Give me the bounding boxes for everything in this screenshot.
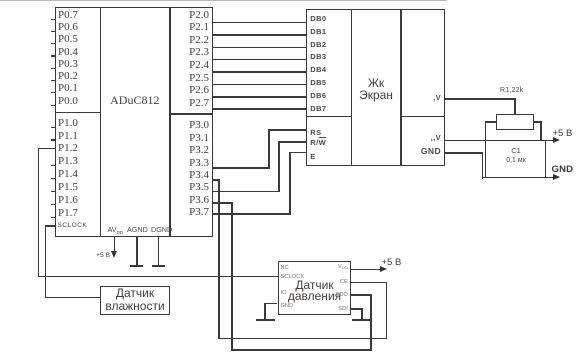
DGND pin label (151, 225, 172, 234)
wire P2.5-DB5 (213, 84, 306, 86)
wire P2.2-DB2 (213, 47, 306, 49)
wire P1.2 to sensor SCLOCK (38, 276, 279, 278)
wire P3.4-CE vertical (218, 179, 220, 339)
ground bar sensor GND (256, 319, 275, 321)
wire P2.3-DB3 (213, 59, 306, 61)
wire SDI vertical (361, 308, 363, 319)
IO pin label (281, 290, 287, 296)
wire P3.6-SDO vertical (231, 202, 233, 351)
DB3 pin label (310, 52, 326, 61)
LCD right column divider (400, 116, 445, 118)
wire sensor GND vertical (264, 303, 266, 320)
wire P2.7-DB7 (213, 108, 306, 110)
pin stub P0.2 (51, 80, 55, 81)
R/W pin label (310, 138, 326, 147)
wire DGND vertical (158, 237, 160, 266)
wire +5V rail (445, 140, 554, 142)
wire SCLOCK stub (45, 225, 55, 227)
V contrast pin label (upper) (420, 93, 441, 102)
pressure sensor box (278, 261, 352, 315)
ADuC812 outer box (55, 7, 214, 237)
ground bar DGND (152, 265, 165, 267)
wire SDO return bottom (231, 349, 372, 351)
pressure sensor label (279, 280, 350, 302)
wire P1.2 vertical (38, 148, 40, 278)
pin stub P0.1 (51, 92, 55, 93)
wire SDO vertical riser (370, 294, 372, 351)
wire P1.2 stub (38, 148, 55, 150)
wire R1 right lead down (540, 121, 542, 140)
wire P3.4 horizontal (213, 179, 220, 181)
wire SCLOCK vertical (45, 225, 47, 298)
ADuC812 left column P0/P1 divider (55, 112, 102, 114)
wire R1 left lead (485, 121, 496, 123)
R1 value label (500, 87, 523, 94)
wire SCLOCK to humidity sensor (45, 297, 101, 299)
ADuC812 chip name label (100, 93, 169, 108)
VDD pin label (325, 264, 348, 270)
wire P3.5-RW vertical (278, 141, 280, 192)
C1 value label (486, 157, 546, 164)
LCD inner divider 2 (400, 9, 402, 166)
ADuC812 inner divider right column (169, 7, 171, 237)
wire CE return bottom (218, 338, 387, 340)
wire LCD lower GND (445, 152, 483, 154)
wire VDD +5V (351, 269, 380, 271)
arrow AVdd +5V (down) (111, 251, 117, 258)
wire P3.3-RS vertical (268, 129, 270, 169)
wire P3.3 horizontal (213, 167, 270, 169)
wire CE vertical riser (386, 282, 388, 339)
AGND pin label (127, 225, 148, 234)
RS pin label (310, 128, 321, 137)
pin stub P0.5 (51, 43, 55, 44)
E pin label (310, 152, 315, 161)
wire P3.5 horizontal (213, 191, 279, 193)
DB2 pin label (310, 40, 326, 49)
C1 ref label (486, 146, 546, 155)
port P3 labels (170, 119, 209, 131)
LCD name label (351, 77, 401, 101)
wire CE horizontal to sensor (351, 282, 387, 284)
port P0 labels (58, 9, 78, 21)
wire P2.0-DB0 (213, 22, 306, 24)
pin stub P0.3 (51, 68, 55, 69)
SDI pin label (325, 306, 348, 312)
wire P3.7 horizontal (213, 213, 290, 215)
SDO pin label (325, 292, 348, 298)
GND pin label (LCD) (418, 146, 441, 156)
port P1 labels (58, 117, 78, 129)
pin stub P0.6 (51, 31, 55, 32)
pin stub P1.3 (51, 165, 55, 166)
wire sensor GND horizontal (264, 303, 277, 305)
V pin label (lower) (420, 133, 441, 142)
humidity sensor box (100, 286, 170, 315)
capacitor C1 box (485, 140, 546, 179)
DB1 pin label (310, 27, 326, 36)
NC pin label (281, 265, 289, 271)
port P2 labels (170, 9, 209, 21)
wire LCD upper V (445, 98, 516, 100)
+5V rail label (553, 128, 573, 139)
wire SDI horizontal (351, 308, 363, 310)
ADuC812 inner divider left column (100, 7, 102, 237)
wire R1 top feed vertical (514, 98, 516, 114)
SCLOCK pin label (sensor) (281, 274, 305, 280)
pin stub P0.4 (51, 55, 55, 56)
wire RW horizontal (278, 141, 306, 143)
SCLOCK pin label (58, 222, 88, 229)
resistor R1 box (496, 114, 534, 130)
wire GND rail (482, 177, 554, 179)
pin stub P1.0 (51, 127, 55, 128)
wire P3.6 horizontal (213, 202, 232, 204)
arrow +5V sensor (right) (380, 266, 387, 272)
+5V label at AVdd (96, 252, 110, 259)
pin stub P1.5 (51, 191, 55, 192)
GND rail label (552, 164, 574, 175)
wire AVdd vertical (114, 237, 116, 252)
pin stub P1.7 (51, 217, 55, 218)
ground bar SDI (352, 319, 371, 321)
wire R1 left lead down (485, 121, 487, 140)
pin stub P1.6 (51, 204, 55, 205)
pin stub P1.1 (51, 139, 55, 140)
wire P3.7-E vertical (289, 152, 291, 215)
wire P2.6-DB6 (213, 96, 306, 98)
arrow GND rail (right) (553, 174, 560, 180)
DB6 pin label (310, 91, 326, 100)
DB7 pin label (310, 104, 326, 113)
ADuC812 right column P2/P3 divider (169, 113, 213, 115)
wire SDO horizontal to sensor (351, 294, 372, 296)
wire P2.1-DB1 (213, 34, 306, 36)
wire LCD GND down (482, 152, 484, 179)
pin stub P0.0 (51, 105, 55, 106)
DB0 pin label (310, 14, 326, 23)
LCD inner divider 1 (351, 9, 353, 166)
wire R1 right lead (534, 121, 541, 123)
CE pin label (325, 279, 348, 285)
LCD outer box (306, 9, 445, 166)
faint scan border line at top (0, 0, 447, 1)
+5V label at sensor (382, 257, 402, 268)
AVdd pin label (108, 225, 124, 235)
wire E horizontal (289, 152, 306, 154)
DB5 pin label (310, 78, 326, 87)
ground bar AGND (130, 265, 143, 267)
wire AGND vertical (136, 237, 138, 266)
arrow +5V rail (right) (553, 137, 560, 143)
wire RS horizontal (268, 129, 306, 131)
humidity sensor label (101, 287, 169, 312)
GND pin label (sensor) (281, 303, 294, 309)
wire P2.4-DB4 (213, 71, 306, 73)
LCD left column DB/RS divider (306, 116, 352, 118)
DB4 pin label (310, 65, 326, 74)
pin stub P1.4 (51, 178, 55, 179)
pin stub P0.7 (51, 19, 55, 20)
